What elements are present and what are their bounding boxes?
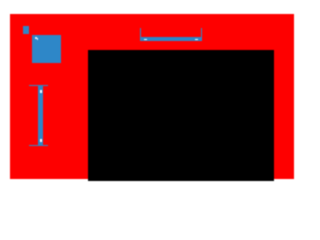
horizontal line right tick: [201, 28, 203, 41]
large blue square: [32, 35, 61, 63]
handle dash bottom: [40, 139, 42, 142]
vertical line bar: [38, 85, 43, 147]
vertical line top tick: [29, 85, 48, 86]
black rectangle: [88, 50, 273, 181]
small blue square: [23, 26, 29, 34]
red canvas: [10, 14, 294, 179]
handle dash right: [195, 39, 198, 41]
horizontal line bar: [140, 37, 202, 42]
vertical line bottom tick: [29, 145, 48, 146]
handle dash left: [144, 39, 147, 41]
cursor dot 1: [35, 37, 37, 39]
handle dash top: [40, 90, 42, 93]
cursor dot 2: [37, 38, 39, 40]
horizontal line left tick: [140, 28, 142, 41]
